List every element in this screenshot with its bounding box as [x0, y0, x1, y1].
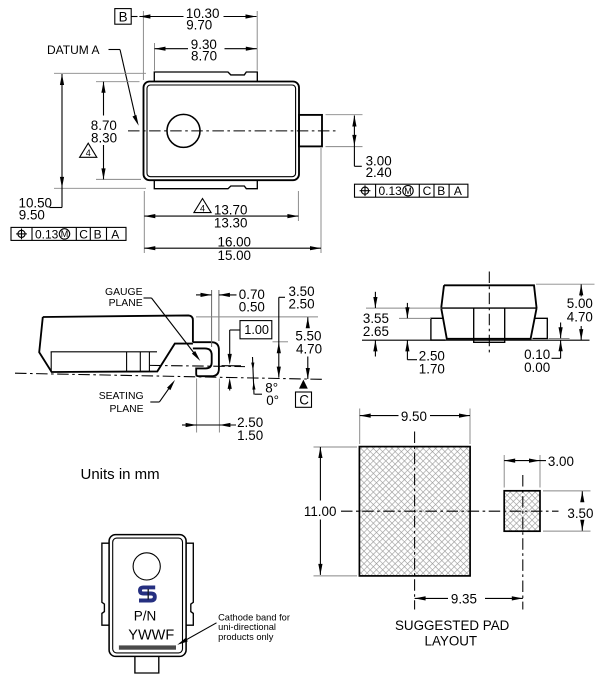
feature control frame left	[11, 227, 126, 241]
svg-text:13.30: 13.30	[214, 216, 248, 231]
svg-text:uni-directional: uni-directional	[218, 622, 276, 632]
svg-text:2.40: 2.40	[366, 165, 392, 180]
dimension 3.00	[504, 454, 574, 469]
extension lines 11.00	[314, 446, 358, 448]
svg-text:9.50: 9.50	[401, 409, 427, 424]
extension lines 9.50	[359, 409, 361, 445]
svg-text:1.50: 1.50	[237, 428, 263, 443]
right terminal lead	[299, 115, 322, 146]
svg-text:GAUGE: GAUGE	[105, 287, 143, 298]
vertical centerline large pad	[414, 432, 416, 610]
svg-text:15.00: 15.00	[218, 248, 252, 263]
side view mold step line	[51, 351, 157, 353]
extension line lead inner wall	[211, 290, 213, 347]
end view center tab	[474, 308, 505, 342]
extension line body left	[142, 11, 144, 80]
dimension 16.00/15.00	[144, 235, 321, 263]
svg-text:2.50: 2.50	[289, 297, 315, 312]
dimension 2.50/1.50	[182, 415, 263, 443]
small pad with crosshatch	[504, 491, 540, 531]
svg-text:Cathode band for: Cathode band for	[218, 613, 290, 623]
svg-text:8.70: 8.70	[191, 49, 217, 64]
dimension 3.00/2.40	[352, 116, 391, 181]
SEATING PLANE label and leader	[99, 379, 177, 415]
datum C triangle	[299, 380, 308, 389]
datum C box	[296, 392, 312, 408]
angle 8deg reference line with converging arrows	[251, 357, 255, 395]
svg-text:3.50: 3.50	[567, 506, 593, 521]
dimension 9.35	[415, 592, 523, 607]
top tab (wide lead) with notch	[154, 72, 257, 82]
extension line tab top left	[54, 72, 146, 74]
svg-text:LAYOUT: LAYOUT	[425, 634, 478, 649]
svg-text:8.30: 8.30	[91, 130, 117, 145]
boxed dimension 1.00 and leader	[228, 321, 272, 391]
extension line body right lower	[297, 191, 299, 221]
svg-text:products only: products only	[218, 632, 274, 642]
end view vertical centerline	[488, 272, 490, 355]
large pad with crosshatch	[359, 447, 470, 576]
extension line foot left	[196, 379, 198, 433]
extension line body top left	[96, 81, 140, 83]
GAUGE PLANE label and leader	[105, 287, 202, 362]
svg-text:11.00: 11.00	[304, 504, 337, 519]
extension line lead top tick	[273, 341, 289, 343]
end view body outline	[441, 285, 536, 339]
svg-text:0.00: 0.00	[524, 360, 550, 375]
pin 1 hole circle	[167, 114, 200, 147]
svg-text:9.50: 9.50	[19, 208, 45, 223]
extension line foot right	[218, 379, 220, 433]
svg-text:PLANE: PLANE	[109, 298, 143, 309]
svg-text:B: B	[94, 227, 102, 241]
extension line lead bottom right	[326, 146, 363, 148]
J-lead cross-section (C shape)	[193, 342, 219, 376]
svg-text:9.70: 9.70	[186, 18, 212, 33]
dimension 10.50/9.50	[19, 74, 65, 223]
seating plane dash-dot line	[15, 373, 325, 379]
package body inner outline	[147, 85, 296, 177]
dimension 5.00/4.70	[567, 284, 593, 340]
dimension 13.70/13.30	[144, 202, 298, 230]
dimension 3.50	[567, 491, 593, 530]
svg-text:1.00: 1.00	[244, 323, 269, 337]
side view left inner corner line	[50, 352, 52, 372]
extension line body left lower	[143, 191, 145, 253]
angle text 8/0 deg with elbow	[255, 381, 279, 408]
extension line tab right	[256, 11, 258, 71]
datum B box	[115, 9, 138, 25]
vertical centerline small pad	[522, 475, 524, 610]
dimension 5.50/4.70	[295, 317, 322, 379]
lead axis dash-dot line	[150, 365, 245, 366]
gauge plane line segment	[222, 365, 242, 367]
dimension 0.10/0.00	[524, 323, 563, 376]
extension line lead tip lower	[320, 148, 322, 253]
marking view hole circle	[133, 553, 160, 580]
svg-text:C: C	[299, 393, 309, 408]
svg-text:3.00: 3.00	[548, 454, 574, 469]
dimension 9.50	[360, 409, 470, 424]
svg-text:DATUM A: DATUM A	[47, 43, 99, 57]
svg-text:B: B	[437, 184, 445, 198]
svg-text:PLANE: PLANE	[110, 404, 144, 415]
svg-text:0.50: 0.50	[239, 300, 265, 315]
seating plane line (end view)	[362, 339, 590, 341]
end view mold step line	[441, 307, 537, 309]
extension line body top extended right	[196, 316, 318, 318]
svg-text:2.65: 2.65	[363, 324, 389, 339]
extension line lead outer wall	[218, 290, 220, 341]
marking view right tab with notch	[186, 543, 193, 625]
note triangle 4 (left)	[80, 143, 97, 158]
side view cathode band lines	[127, 352, 150, 371]
svg-text:M: M	[404, 186, 412, 196]
dimension 0.70/0.50	[196, 287, 265, 315]
extension line body top right	[536, 283, 595, 285]
svg-text:C: C	[79, 227, 88, 241]
side view body outline	[39, 315, 193, 372]
svg-text:Units in mm: Units in mm	[81, 466, 160, 483]
TSC logo S	[139, 587, 155, 600]
extension line tab bottom right	[549, 338, 570, 340]
bottom tab (wide lead) with notch	[154, 180, 257, 189]
package body outer outline	[144, 82, 300, 181]
dimension 10.30/9.70	[139, 6, 256, 33]
svg-text:P/N: P/N	[134, 609, 157, 624]
end view right lead tab	[533, 318, 548, 338]
svg-text:A: A	[454, 184, 462, 198]
svg-text:1.70: 1.70	[419, 362, 445, 377]
svg-text:4: 4	[86, 148, 91, 158]
svg-text:A: A	[111, 227, 119, 241]
dimension 11.00	[304, 447, 337, 575]
SUGGESTED PAD LAYOUT caption	[395, 618, 510, 649]
DATUM A label and leader	[47, 43, 141, 126]
end view left lead tab	[431, 318, 446, 340]
extension lines 3.00	[503, 455, 505, 488]
svg-text:4.70: 4.70	[296, 341, 322, 356]
svg-text:M: M	[61, 229, 69, 239]
svg-text:4.70: 4.70	[567, 310, 593, 325]
svg-text:0°: 0°	[266, 393, 279, 408]
horizontal centerline of top view	[128, 130, 336, 132]
svg-text:C: C	[423, 184, 432, 198]
marking view bottom lead	[135, 656, 159, 673]
svg-text:0.13: 0.13	[35, 227, 59, 241]
svg-text:SEATING: SEATING	[99, 391, 144, 402]
cathode band annotation and leader	[176, 613, 290, 647]
dimension 9.30/8.70	[155, 37, 257, 64]
marking view inner body	[113, 538, 183, 653]
marking view outer body	[109, 535, 186, 657]
dimension 3.50/2.50	[277, 284, 315, 378]
marking view left tab with notch	[102, 543, 109, 625]
horizontal centerline pads	[341, 510, 559, 512]
extension line body bottom left	[96, 178, 141, 180]
svg-text:0.13: 0.13	[379, 184, 403, 198]
extension line tab top	[399, 317, 431, 319]
extension line lead top right	[326, 114, 363, 116]
dimension 8.70/8.30	[91, 82, 117, 180]
extension line step left	[366, 307, 442, 309]
svg-text:9.35: 9.35	[451, 592, 477, 607]
svg-text:SUGGESTED PAD: SUGGESTED PAD	[395, 618, 510, 633]
dimension 3.55/2.65	[363, 292, 389, 357]
note triangle 4 (bottom)	[194, 199, 211, 214]
extension line tab bottom left	[54, 187, 146, 189]
svg-text:YWWF: YWWF	[128, 628, 174, 644]
dimension 2.50/1.70	[405, 303, 445, 377]
extension line tab left	[154, 43, 156, 71]
svg-text:B: B	[119, 10, 128, 25]
svg-text:4: 4	[200, 203, 205, 213]
cathode band	[119, 645, 176, 649]
extension lines 3.50	[543, 490, 591, 492]
feature control frame right	[355, 184, 468, 198]
